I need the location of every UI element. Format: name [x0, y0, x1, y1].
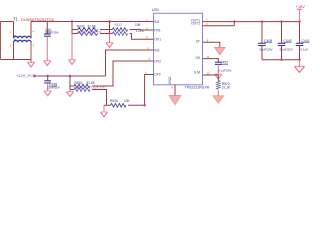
- node on out rail at C441: [298, 20, 300, 22]
- wire ST: [203, 42, 220, 47]
- resistor R534: [111, 103, 126, 107]
- wire left vertical edge: [0, 22, 2, 60]
- ground stem below x72: [71, 34, 73, 60]
- node joining OUT1/OUT2: [233, 20, 235, 22]
- wire branch down x109.5: [109, 22, 111, 34]
- node on PCM rail at C438: [47, 75, 49, 77]
- ground below caps: [299, 60, 301, 67]
- capacitor C408: [258, 22, 266, 60]
- capacitor C440: [278, 22, 286, 60]
- svg-text:R532: R532: [75, 81, 83, 85]
- node at R534/CP2 riser: [143, 104, 145, 106]
- svg-text:22uF/25V: 22uF/25V: [45, 31, 59, 35]
- wire row1 to OV2 riser: [92, 61, 154, 86]
- svg-text:OV1: OV1: [154, 38, 161, 42]
- transformer T1 common-mode choke: [14, 22, 32, 60]
- svg-text:U30: U30: [152, 8, 159, 12]
- ground below C452: [215, 74, 222, 79]
- node on PCM rail at divider branch: [69, 75, 71, 77]
- resistor R213: [113, 32, 128, 36]
- node at caps ground: [298, 59, 300, 61]
- svg-text:C408: C408: [264, 39, 272, 43]
- svg-text:22uF/25V: 22uF/25V: [47, 86, 60, 90]
- resistor R522 vertical: [216, 81, 220, 90]
- svg-text:OUT2: OUT2: [191, 21, 200, 25]
- wire ILM: [203, 75, 219, 81]
- resistor R203: [78, 32, 98, 36]
- svg-text:57.6K: 57.6K: [88, 25, 97, 29]
- svg-text:CP2: CP2: [154, 72, 161, 76]
- svg-text:+15V: +15V: [296, 5, 305, 9]
- ground ST solid arrow: [215, 47, 225, 54]
- ground below x109.5: [109, 34, 111, 43]
- svg-text:57.6K: 57.6K: [87, 81, 96, 85]
- wire bottom row: [104, 104, 111, 106]
- wire GND stem: [174, 85, 176, 96]
- capacitor C452: [215, 62, 222, 74]
- svg-text:IN2: IN2: [154, 48, 159, 52]
- wire IN1 rail: [31, 21, 154, 23]
- ground below C40: [44, 61, 51, 66]
- svg-text:C452: C452: [220, 61, 228, 65]
- wire IN2 riser: [106, 50, 154, 76]
- svg-text:22uF/25V: 22uF/25V: [259, 48, 273, 52]
- svg-text:+12V_PCM: +12V_PCM: [16, 73, 36, 78]
- svg-text:T1: T1: [13, 17, 19, 22]
- wire to CP2 riser: [128, 75, 154, 106]
- svg-text:13K: 13K: [124, 99, 131, 103]
- wire OUT1: [203, 21, 300, 23]
- svg-text:SS: SS: [195, 56, 200, 60]
- svg-text:R212: R212: [115, 23, 123, 27]
- node at row2/ground junction: [108, 32, 110, 34]
- wire jog joining OUT1 to rail: [233, 22, 235, 26]
- svg-text:R533: R533: [75, 86, 83, 90]
- ground GND solid arrow: [169, 96, 181, 105]
- ground ILM solid arrow: [213, 96, 223, 103]
- svg-text:TPS2121RUXR: TPS2121RUXR: [185, 85, 210, 89]
- svg-text:R203: R203: [77, 30, 85, 34]
- node dot on rail x109.5: [108, 20, 110, 22]
- svg-text:GND: GND: [168, 76, 172, 84]
- svg-text:OV2: OV2: [154, 59, 161, 63]
- svg-text:0.1uF: 0.1uF: [300, 48, 308, 52]
- +15V power symbol: [299, 9, 301, 21]
- ground below bottom row: [103, 105, 105, 111]
- capacitor C441: [296, 22, 304, 60]
- svg-text:0.1uF/25V: 0.1uF/25V: [218, 69, 232, 73]
- svg-text:22.1K: 22.1K: [222, 86, 231, 90]
- svg-text:13K: 13K: [135, 23, 142, 27]
- wire row2 drop: [92, 90, 107, 106]
- svg-text:ST: ST: [196, 39, 200, 43]
- svg-text:3: 3: [33, 44, 35, 48]
- svg-text:C440: C440: [284, 39, 292, 43]
- resistor R532: [74, 84, 90, 88]
- svg-text:2: 2: [10, 44, 12, 48]
- svg-text:R202: R202: [77, 25, 85, 29]
- wire below R522: [217, 90, 219, 96]
- ground below T1: [30, 42, 32, 62]
- resistor R533: [74, 88, 90, 92]
- wire divider branch: [70, 76, 74, 90]
- wire row1 to PR1: [130, 29, 154, 32]
- svg-text:4.99K 1%: 4.99K 1%: [88, 30, 102, 34]
- node on out rail at C440: [280, 20, 282, 22]
- svg-text:PR1: PR1: [154, 28, 161, 32]
- node on caps bottom rail: [280, 59, 282, 61]
- svg-text:ILM: ILM: [194, 71, 200, 75]
- wire SS: [203, 59, 219, 62]
- wire row2 to OV1: [130, 34, 154, 40]
- wire row2 mid: [100, 33, 113, 35]
- ground below C438: [44, 91, 51, 96]
- svg-text:4: 4: [149, 57, 151, 61]
- wire input bottom: [1, 59, 32, 61]
- node dot on rail x72: [71, 20, 73, 22]
- svg-text:22uF/25V: 22uF/25V: [280, 48, 294, 52]
- wire input top: [1, 21, 14, 23]
- svg-text:R534: R534: [110, 99, 118, 103]
- svg-text:9: 9: [172, 85, 174, 89]
- power flag arrow: [34, 74, 37, 78]
- svg-text:C441: C441: [302, 39, 310, 43]
- svg-text:1: 1: [10, 30, 12, 34]
- capacitor C438: [44, 76, 51, 91]
- wire OUT2 rail: [203, 25, 235, 27]
- node on out rail at C408: [261, 20, 263, 22]
- IC U30 TPS2121RUXR power mux body: [154, 13, 203, 85]
- svg-text:2: 2: [147, 46, 149, 50]
- wire branch down from rail: [71, 22, 73, 34]
- wire PCM rail: [37, 75, 106, 77]
- svg-text:4: 4: [33, 30, 35, 34]
- svg-text:IN1: IN1: [154, 20, 159, 24]
- resistor R202: [78, 28, 98, 32]
- resistor R212: [113, 28, 128, 32]
- wire row1 mid: [100, 29, 113, 31]
- capacitor C40: [44, 22, 51, 61]
- wire caps bottom rail: [262, 59, 300, 61]
